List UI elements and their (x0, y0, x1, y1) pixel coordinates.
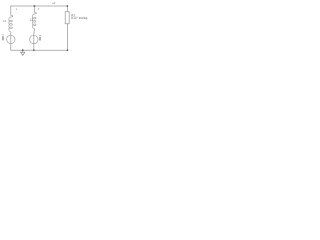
wire middle vertical between L2 and source (33, 29, 36, 35)
node junction ground (22, 49, 24, 51)
svg-text:8.47 kΩ/kg: 8.47 kΩ/kg (71, 16, 87, 20)
inductor L1 (9, 15, 13, 32)
wire bottom horizontal (11, 49, 68, 51)
wire top horizontal (11, 5, 68, 7)
node junction I2 bottom (33, 49, 35, 51)
wire right vertical lower (66, 24, 68, 50)
wire middle vertical lower (33, 44, 35, 51)
wire middle vertical upper (33, 6, 35, 12)
wire left vertical upper (10, 6, 12, 15)
wire left vertical between L1 and source (10, 32, 12, 35)
current source I2 (30, 35, 38, 43)
ground (21, 50, 25, 55)
wire left vertical lower (10, 44, 12, 51)
svg-text:L2: L2 (30, 17, 34, 21)
current label i1 (2, 34, 5, 40)
wire right vertical upper (66, 6, 68, 12)
svg-text:2: 2 (38, 8, 40, 11)
svg-text:1: 1 (16, 8, 18, 11)
node junction resistor bottom (67, 49, 69, 51)
resistor R (65, 12, 69, 24)
node junction resistor top (67, 5, 69, 7)
svg-text:L1: L1 (3, 19, 7, 23)
current source I1 (7, 35, 15, 43)
current label i2 (39, 35, 42, 40)
svg-text:u2: u2 (52, 2, 55, 5)
inductor L2 (32, 12, 36, 29)
node junction L2 top (34, 5, 36, 7)
